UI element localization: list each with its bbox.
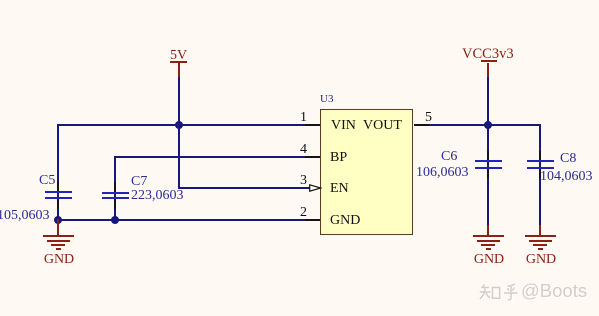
pin 2 number xyxy=(300,206,307,220)
wire C8 branch vertical xyxy=(539,124,541,226)
power VCC3v3 xyxy=(462,47,514,77)
ground GND left xyxy=(43,219,74,267)
wire BP net horizontal xyxy=(114,156,306,158)
capacitor C8 xyxy=(527,151,599,185)
wire 5V net top horizontal xyxy=(57,124,306,126)
capacitor C6 xyxy=(416,150,501,180)
pin name EN xyxy=(330,182,349,196)
pin name VIN xyxy=(331,119,356,133)
pin 4 BP stub xyxy=(305,156,320,158)
junction node VOUT/C6 xyxy=(484,121,492,129)
junction node GND/C7 xyxy=(111,216,119,224)
pin 2 GND stub xyxy=(305,219,320,221)
op-amp body: IC U3 rectangle xyxy=(320,109,413,235)
ground GND under C6 xyxy=(473,225,504,267)
pin 5 VOUT stub xyxy=(414,124,429,126)
wire C5 branch vertical xyxy=(57,124,59,221)
wire EN branch vertical xyxy=(178,124,180,189)
pin name BP xyxy=(330,151,347,165)
wire GND net bottom horizontal xyxy=(57,219,306,221)
pin 3 number xyxy=(300,174,307,188)
pin name VOUT xyxy=(363,119,402,133)
watermark zhihu @Boots xyxy=(479,282,589,302)
pin 4 number xyxy=(300,143,307,157)
wire EN horizontal xyxy=(178,187,310,189)
power 5V xyxy=(170,49,188,78)
wire VOUT horizontal xyxy=(429,124,541,126)
pin 3 EN arrow xyxy=(309,184,322,192)
wire 5V vertical xyxy=(178,76,180,125)
pin 5 number xyxy=(425,111,432,125)
pin 1 number xyxy=(300,111,307,125)
junction node GND/C5 xyxy=(54,216,62,224)
wire VCC3v3 vertical xyxy=(487,76,489,125)
pin name GND xyxy=(330,214,360,228)
wire C7 branch vertical xyxy=(114,156,116,222)
IC U3 designator label xyxy=(320,94,333,105)
wire C6 branch vertical xyxy=(487,124,489,226)
capacitor C5 xyxy=(0,174,72,222)
capacitor C7 xyxy=(102,175,185,209)
junction node 5V/VIN/EN xyxy=(175,121,183,129)
ground GND under C8 xyxy=(525,225,556,267)
pin 1 VIN stub xyxy=(305,124,320,126)
